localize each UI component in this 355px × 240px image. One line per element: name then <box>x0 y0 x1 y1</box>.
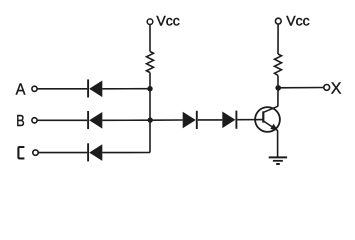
diode D3 (input C) <box>88 143 102 161</box>
diode D5 (level shift) <box>222 111 236 129</box>
wire Vcc(left) to resistor R1 <box>149 25 151 52</box>
Vcc terminal (left rail) <box>147 19 153 25</box>
svg-text:X: X <box>331 80 342 97</box>
wire: node X down to collector <box>277 88 279 107</box>
terminal X <box>324 85 330 91</box>
svg-text:Vcc: Vcc <box>156 13 179 29</box>
diode D4 (level shift) <box>183 111 197 129</box>
node A' (junction dot) <box>147 86 152 91</box>
wire: C terminal to diode D3 <box>38 152 87 154</box>
node X (junction dot) <box>275 85 281 91</box>
wire: D5 to transistor base <box>237 119 263 121</box>
wire: bus from R1 down to input C row <box>149 73 151 153</box>
node B' (junction dot) <box>148 117 153 122</box>
terminal B <box>32 118 37 123</box>
diode D2 (input B) <box>88 111 102 129</box>
terminal C <box>33 150 38 155</box>
wire: D2 to node B' <box>102 119 150 121</box>
wire: node B' to diode D4 <box>150 119 183 121</box>
resistor R1 (left pull-up) <box>147 52 154 73</box>
svg-text:A: A <box>16 82 26 99</box>
wire: node X to output terminal <box>278 87 324 89</box>
wire: D3 to bus corner <box>102 152 150 154</box>
resistor R2 (collector load) <box>275 54 282 76</box>
Vcc terminal (right rail) <box>275 18 281 24</box>
wire: B terminal to diode D2 <box>37 119 87 121</box>
ground <box>269 157 287 164</box>
wire: A terminal to diode D1 <box>37 88 87 90</box>
transistor Q1 (NPN) <box>255 106 280 132</box>
wire: D4 to D5 <box>198 119 223 121</box>
wire: R2 to node X <box>277 76 279 88</box>
svg-text:Vcc: Vcc <box>286 13 309 29</box>
wire: D1 to node A' <box>102 88 150 90</box>
input label C <box>18 147 24 158</box>
wire: emitter to ground <box>277 130 279 157</box>
svg-text:B: B <box>16 113 25 130</box>
wire Vcc(right) to resistor R2 <box>277 24 279 54</box>
terminal A <box>32 86 37 91</box>
diode D1 (input A) <box>88 79 102 97</box>
